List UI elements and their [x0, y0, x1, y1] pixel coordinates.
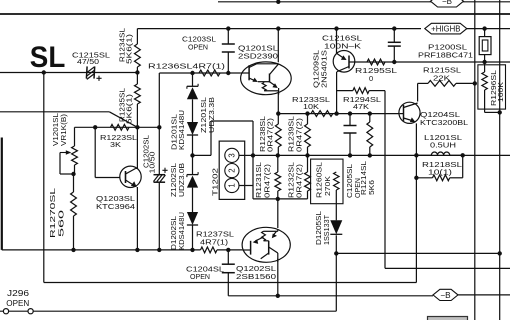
wire full-width horizontal line	[0, 13, 510, 15]
label KTC3200BL	[420, 118, 468, 127]
resistor R1238SL	[275, 114, 281, 156]
wire x416.4 drop	[415, 178, 417, 283]
wire wiper down	[60, 153, 74, 175]
label C1203SL	[182, 35, 216, 44]
svg-text:KDS4148U: KDS4148U	[179, 110, 186, 150]
label Q1203SL	[96, 194, 135, 203]
label R1234SL 5K6(1)	[120, 28, 134, 64]
svg-text:2: 2	[228, 168, 237, 172]
capacitor C1215SL	[86, 66, 101, 81]
wire y111.8	[0, 111, 109, 113]
posistor P1200SL	[479, 29, 491, 62]
svg-text:10K: 10K	[303, 102, 319, 111]
svg-text:D1202SL: D1202SL	[171, 216, 178, 250]
junction Q1203 emitter bottom	[135, 248, 139, 252]
wire R1215 right	[456, 82, 475, 84]
svg-text:V1201SL: V1201SL	[53, 113, 60, 146]
junction x137.4 y127.3	[135, 125, 139, 129]
wire Q1203 emitter	[136, 187, 138, 250]
wire Q1201 emitter down	[277, 92, 279, 112]
junction x159.3 y127.3	[157, 125, 161, 129]
svg-text:R1231SL: R1231SL	[256, 162, 263, 198]
svg-text:UDZ3.3B: UDZ3.3B	[209, 97, 216, 133]
resistor R1237SL	[201, 247, 218, 253]
resistor R1239SL	[305, 114, 311, 156]
junction diode mid node	[190, 153, 194, 157]
junction C1204 top	[226, 248, 230, 252]
diode D1201SL	[187, 122, 198, 135]
capacitor C1205SL	[344, 114, 357, 156]
wire R1237 to base	[217, 249, 242, 251]
box bottom-right partial	[428, 317, 468, 320]
wire Z1202-D1202	[192, 188, 194, 212]
T1202 pin 3	[225, 148, 239, 162]
junction Q1201 collector rail	[276, 26, 280, 30]
label C1216SL	[322, 34, 362, 43]
jumper J296 pad 2	[28, 309, 33, 314]
resistor R1218SL parallel loop	[416, 155, 462, 180]
svg-text:PRF18BC471: PRF18BC471	[418, 51, 473, 60]
inductor L1201SL	[431, 152, 449, 155]
label 2SD2390	[238, 52, 278, 61]
label 100N-K	[324, 42, 361, 51]
resistor R1296SL	[482, 62, 500, 112]
svg-text:VR1K(B): VR1K(B)	[61, 114, 68, 146]
label 3K	[110, 140, 121, 149]
svg-text:1SS133T: 1SS133T	[324, 214, 331, 245]
wire Q1201 collector up	[277, 29, 279, 63]
wire x159.3 down	[158, 73, 160, 250]
junction base feed	[93, 125, 97, 129]
label -B (top)	[431, 0, 464, 7]
wire -B right	[458, 294, 510, 296]
svg-text:Q1209SL: Q1209SL	[314, 50, 321, 88]
label V1201SL VR1K(B)	[53, 113, 68, 146]
junction L1201 left	[414, 153, 418, 157]
svg-text:R1295SL: R1295SL	[355, 66, 397, 75]
svg-text:47/50: 47/50	[77, 57, 99, 66]
label T1202	[211, 168, 220, 196]
svg-text:R1234SL: R1234SL	[120, 28, 127, 62]
label R1223SL	[100, 133, 137, 142]
label R1231SL 0R47(2)	[256, 162, 272, 198]
label R1237SL	[196, 230, 234, 239]
label R1295SL	[355, 66, 397, 75]
resistor R1234SL	[135, 40, 141, 73]
svg-text:560: 560	[57, 210, 66, 237]
svg-text:UDZ3.0B: UDZ3.0B	[179, 163, 186, 197]
wire pin3 to node	[239, 154, 253, 156]
resistor R1223SL	[111, 124, 130, 130]
svg-text:3K: 3K	[110, 140, 121, 149]
wire y62 row	[354, 61, 510, 63]
svg-text:100N–K: 100N–K	[324, 42, 361, 51]
svg-text:KTC3200BL: KTC3200BL	[420, 118, 468, 127]
wire y253.4	[336, 252, 499, 254]
label Z1201SL UDZ3.3B	[201, 97, 216, 133]
wire pot top stub	[74, 127, 76, 146]
resistor R1232SL	[305, 155, 311, 199]
svg-text:47K: 47K	[353, 102, 369, 111]
wire y282.5 row	[44, 282, 417, 284]
resistor R1270SL	[71, 174, 77, 250]
resistor R1215SL	[428, 81, 456, 87]
wire y113.6 row	[278, 113, 400, 115]
junction R1236 right	[226, 71, 230, 75]
svg-text:5K6(1): 5K6(1)	[127, 94, 134, 124]
wire y127.3	[75, 126, 160, 128]
svg-text:+HIGHB: +HIGHB	[431, 24, 460, 33]
label Q1209SL 2N5401S	[314, 50, 329, 88]
label R1296SL 160K	[491, 70, 505, 106]
resistor R1260SL box	[311, 159, 343, 204]
capacitor C1204SL	[222, 250, 235, 296]
svg-text:R1236SL4R7(1): R1236SL4R7(1)	[148, 62, 225, 71]
junction x43.8 y72.5	[42, 70, 46, 74]
wire y268 row	[385, 267, 510, 269]
wire Q1209 collector down	[336, 72, 338, 114]
svg-text:5K6(1): 5K6(1)	[127, 34, 134, 64]
junction P1200 tap	[482, 26, 486, 30]
svg-text:0R47(2): 0R47(2)	[297, 118, 304, 152]
svg-text:160K: 160K	[498, 82, 505, 102]
variable resistor V1201SL	[72, 146, 78, 174]
resistor R1294SL	[353, 88, 369, 94]
svg-text:KTC3964: KTC3964	[96, 202, 135, 211]
wire left edge riser	[2, 138, 138, 250]
wiper arrow V1201SL	[60, 150, 71, 155]
label J296	[7, 289, 30, 298]
svg-text:KDS4148U: KDS4148U	[179, 212, 186, 250]
junction R1296 to bus	[498, 110, 502, 114]
label 10(1)	[428, 168, 452, 177]
capacitor C1203SL	[222, 29, 235, 73]
junction Q1209 rail	[334, 26, 338, 30]
label R1218SL	[422, 160, 462, 169]
svg-text:C1205SL: C1205SL	[347, 164, 354, 198]
transistor Q1203SL	[120, 166, 141, 187]
label C1215SL	[72, 51, 110, 60]
label R1214SL 5K6	[361, 161, 376, 195]
wire L1201 leads	[416, 154, 462, 156]
junction C1216 top	[392, 26, 396, 30]
label Q1204SL	[420, 110, 460, 119]
junction diode bottom	[190, 248, 194, 252]
junction R1270 bottom	[71, 248, 75, 252]
wire Q1202 emitter	[277, 259, 279, 296]
label R1294SL	[343, 95, 381, 104]
label D1205SL 1S133T	[316, 211, 331, 245]
label R1233SL	[292, 95, 330, 104]
junction R1232 top	[305, 153, 309, 157]
label OPEN (J296)	[6, 299, 29, 308]
wire right vertical bus A	[474, 0, 476, 320]
junction L1201 right	[461, 153, 465, 157]
label 2SB1560	[236, 272, 276, 281]
junction R1214 bottom	[368, 153, 372, 157]
svg-text:2SD2390: 2SD2390	[238, 52, 278, 61]
T1202 pin 1	[225, 178, 239, 192]
label R1236SL4R7(1)	[148, 62, 225, 71]
junction R1215 right	[473, 81, 477, 85]
label 4R7(1) (R1237)	[200, 238, 228, 247]
wire y155.45 rail	[253, 154, 510, 156]
svg-text:−B: −B	[442, 0, 452, 6]
junction C1203 top	[226, 26, 230, 30]
svg-text:R1239SL: R1239SL	[289, 116, 296, 152]
svg-text:J296: J296	[7, 289, 30, 298]
zener Z1201SL	[187, 73, 198, 99]
label R1270SL 560	[48, 188, 66, 238]
junction P1200 bottom	[482, 60, 486, 64]
svg-text:0R47(2): 0R47(2)	[297, 164, 304, 198]
svg-text:OPEN: OPEN	[6, 299, 29, 308]
label +HIGHB	[425, 23, 467, 34]
label KTC3964	[96, 202, 135, 211]
label SL	[30, 41, 66, 74]
junction R1234/R1235	[135, 70, 139, 74]
wire y198.9	[253, 198, 308, 200]
wire diagonal to R1223 node	[109, 112, 137, 128]
junction C1205 top	[348, 111, 352, 115]
svg-text:D1205SL: D1205SL	[316, 211, 323, 245]
wire y72.5 left	[0, 72, 138, 74]
transformer T1202 box	[219, 141, 245, 199]
svg-text:R1260SL: R1260SL	[317, 162, 324, 198]
resistor R1235SL	[135, 73, 141, 128]
label R1239SL 0R47(2)	[289, 116, 304, 152]
label C1204SL	[186, 265, 224, 274]
wire Q1202 collector feed	[277, 199, 279, 228]
wire right vertical bus B	[499, 0, 501, 320]
svg-text:D1201SL: D1201SL	[172, 114, 179, 150]
svg-text:R1232SL: R1232SL	[289, 162, 296, 198]
label D1201SL KDS4148U	[172, 110, 187, 150]
wire top rail to -B	[218, 1, 510, 3]
diode D1202SL	[187, 212, 198, 225]
label Q1201SL	[238, 44, 278, 53]
label 47K	[353, 102, 369, 111]
resistor R1260SL	[334, 172, 339, 204]
label Z1202SL UDZ3.0B	[171, 163, 186, 197]
junction Q1202 emitter node	[276, 294, 280, 298]
label -B (bottom)	[433, 289, 458, 300]
svg-text:OPEN: OPEN	[188, 43, 208, 52]
label PRF18BC471	[418, 51, 473, 60]
label Q1202SL	[236, 264, 276, 273]
junction y253.4 right	[498, 251, 502, 255]
svg-text:SL: SL	[30, 41, 66, 74]
transistor Q1202SL	[242, 227, 290, 262]
label OPEN (C1204)	[190, 272, 210, 281]
wire y249.9 rail	[137, 249, 200, 251]
label 47/50	[77, 57, 99, 66]
svg-text:0R47(2): 0R47(2)	[265, 164, 272, 198]
wire node to riser	[193, 154, 212, 156]
wire y121 jog	[211, 120, 253, 122]
svg-text:R1235SL: R1235SL	[120, 88, 127, 122]
label 22K	[433, 74, 450, 83]
wire Q1204 emitter	[415, 123, 417, 155]
capacitor C1216SL	[388, 29, 401, 62]
label OPEN (C1203)	[188, 43, 208, 52]
svg-text:R1214SL: R1214SL	[361, 161, 368, 195]
label D1202SL KDS4148U	[171, 212, 186, 250]
svg-text:10/50: 10/50	[150, 151, 157, 173]
label R1238SL 0R47(2)	[260, 116, 275, 152]
svg-text:0.5UH: 0.5UH	[430, 141, 456, 150]
junction D1205 bottom	[334, 251, 338, 255]
label C1202SL 10/50	[144, 135, 157, 174]
resistor R1236SL	[199, 70, 220, 76]
T1202 pin 2	[225, 164, 239, 178]
transistor Q1204SL	[399, 102, 420, 123]
wire Z1201-D1201	[192, 99, 194, 122]
junction C1202 bottom	[157, 248, 161, 252]
svg-text:OPEN: OPEN	[190, 272, 210, 281]
svg-text:0R47(2): 0R47(2)	[268, 118, 275, 152]
wire base drop	[95, 127, 120, 177]
junction R1214 top	[368, 111, 372, 115]
wire R1215 corner	[418, 83, 428, 101]
junction Z1201 top	[190, 71, 194, 75]
svg-text:2SB1560: 2SB1560	[236, 272, 276, 281]
junction R1295 right	[392, 60, 396, 64]
wire x253 drop	[252, 121, 254, 199]
label R1260SL 270K	[317, 162, 333, 198]
resistor R1214SL	[367, 114, 373, 156]
svg-text:5K6: 5K6	[369, 180, 376, 195]
svg-text:R1296SL: R1296SL	[491, 70, 498, 106]
resistor R1233SL	[311, 111, 333, 117]
svg-text:Z1202SL: Z1202SL	[171, 163, 178, 197]
junction R1239 top	[305, 111, 309, 115]
junction Q1201 emitter node	[276, 111, 280, 115]
junction R1231 bottom	[276, 197, 280, 201]
svg-text:4R7(1): 4R7(1)	[200, 238, 228, 247]
wire C1204 drop corner	[228, 295, 433, 297]
svg-text:1: 1	[228, 183, 237, 187]
junction R1218 left	[414, 176, 418, 180]
wire pin1 out	[239, 185, 253, 187]
transistor Q1209SL	[333, 29, 355, 73]
resistor R1296SL box	[478, 65, 506, 109]
junction R1231 top	[276, 153, 280, 157]
wire Q1203 collector	[136, 127, 138, 168]
label 0 (R1295)	[369, 74, 373, 83]
svg-text:270K: 270K	[325, 176, 332, 196]
wire R1294 right corner	[369, 91, 385, 269]
jumper J296 pad 1	[3, 309, 8, 314]
junction x253 y155.45	[251, 153, 255, 157]
wire D1201 to node	[192, 135, 194, 155]
zener Z1202SL	[187, 155, 198, 187]
transistor Q1201SL	[240, 62, 291, 95]
svg-text:2N5401S: 2N5401S	[322, 50, 329, 88]
wire R1260 to D1205	[335, 204, 337, 221]
svg-text:Z1201SL: Z1201SL	[201, 97, 208, 133]
svg-text:3: 3	[228, 153, 237, 157]
svg-text:0: 0	[369, 74, 373, 83]
junction pot bottom	[71, 172, 75, 176]
wire R1234 top corner	[136, 29, 138, 40]
junction C1205 bottom	[348, 153, 352, 157]
label R1232SL 0R47(2)	[289, 162, 304, 198]
label 10K	[303, 102, 319, 111]
wire corner x159.3 top	[158, 72, 161, 74]
resistor R1231SL	[275, 155, 281, 199]
svg-text:10(1): 10(1)	[428, 168, 452, 177]
label L1201SL	[424, 133, 462, 142]
label C1205SL OPEN	[347, 164, 362, 198]
wire +HIGHB rail	[137, 28, 510, 30]
resistor R1295SL	[367, 59, 385, 65]
wire y73 R1236 row	[160, 72, 241, 74]
diode D1205SL	[330, 220, 342, 234]
capacitor C1202SL	[153, 168, 167, 183]
wire D1202 to bottom rail	[192, 225, 194, 250]
junction R1233 right	[334, 111, 338, 115]
wire x43.8 vertical	[43, 73, 45, 283]
svg-text:T1202: T1202	[211, 168, 220, 196]
svg-text:−B: −B	[440, 291, 451, 300]
wire J296 rail	[0, 253, 336, 311]
label R1215SL	[423, 66, 461, 75]
label R1235SL 5K6(1)	[120, 88, 134, 124]
label P1200SL	[428, 43, 467, 52]
wire riser x211	[210, 121, 212, 155]
svg-text:22K: 22K	[433, 74, 450, 83]
wire R1294 left corner	[337, 90, 353, 92]
label 0.5UH	[430, 141, 456, 150]
svg-text:R1238SL: R1238SL	[260, 116, 267, 152]
wire D1205 to node	[335, 235, 337, 253]
junction on top rail	[276, 0, 280, 4]
